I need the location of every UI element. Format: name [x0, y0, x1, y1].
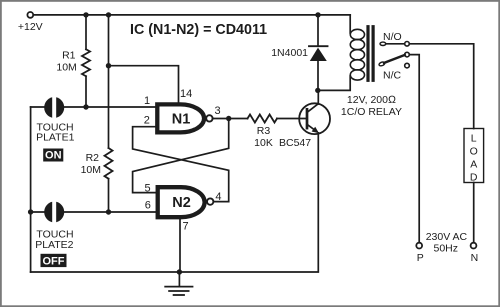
resistor R2 — [81, 148, 113, 179]
svg-text:N2: N2 — [172, 195, 191, 211]
ground — [165, 272, 192, 295]
svg-text:R2: R2 — [86, 152, 100, 164]
wire: N1 output to R3 — [213, 118, 248, 120]
svg-text:IC (N1-N2) = CD4011: IC (N1-N2) = CD4011 — [130, 22, 267, 38]
wire: R2 bottom to touch line 2 — [108, 179, 110, 212]
svg-text:10M: 10M — [81, 164, 101, 176]
nand gate N2 — [158, 187, 214, 217]
wire: supply tap to pin 14 of N1 — [109, 66, 179, 105]
node: ground rail junction — [177, 269, 182, 274]
node: R1 top junction — [83, 12, 88, 17]
relay N/O contact — [380, 31, 409, 46]
wire: junction to relay coil bottom — [318, 76, 350, 90]
svg-text:12V, 200Ω: 12V, 200Ω — [347, 94, 396, 106]
wire: bottom ground rail — [31, 133, 319, 272]
svg-text:A: A — [470, 158, 477, 170]
svg-text:L: L — [471, 132, 477, 144]
wire: touch plate 1 to N1 pin 1 — [64, 106, 158, 108]
node: R2 bottom junction — [106, 209, 111, 214]
node: R1 bottom junction — [83, 104, 88, 109]
svg-text:R1: R1 — [62, 50, 76, 62]
wire: left vertical rail — [30, 107, 32, 272]
relay value label — [341, 94, 402, 118]
label OFF — [41, 254, 67, 267]
svg-text:10K: 10K — [254, 137, 273, 149]
wire: N/O contact to load — [409, 44, 473, 129]
svg-text:R3: R3 — [257, 125, 271, 137]
wire: rail to R1 — [85, 15, 87, 49]
terminal N — [471, 243, 479, 264]
svg-text:3: 3 — [214, 105, 220, 117]
wire: collector up to diode node — [317, 90, 319, 104]
resistor R1 — [56, 49, 90, 76]
+12V supply terminal — [18, 12, 43, 33]
wire: pole to P terminal — [409, 55, 419, 243]
mains label 230V AC 50Hz — [426, 231, 468, 255]
svg-text:PLATE1: PLATE1 — [36, 131, 74, 143]
touch plate 1 symbol — [44, 97, 64, 117]
svg-text:5: 5 — [144, 183, 150, 195]
resistor R3 — [248, 115, 278, 150]
svg-text:ON: ON — [45, 150, 62, 162]
svg-text:O: O — [470, 145, 478, 157]
relay RL1 coil — [350, 15, 364, 80]
svg-text:7: 7 — [182, 221, 188, 233]
nand gate N1 — [157, 104, 212, 132]
diode D1 1N4001 — [271, 15, 327, 91]
svg-text:P: P — [417, 252, 424, 264]
svg-text:10M: 10M — [56, 61, 76, 73]
svg-text:1N4001: 1N4001 — [271, 47, 308, 59]
relay core bars — [368, 27, 373, 81]
svg-text:1C/O RELAY: 1C/O RELAY — [341, 106, 402, 118]
wire: R3 to base of Q1 — [277, 118, 306, 120]
wire: rail down to R2 — [108, 15, 110, 148]
relay N/C contact — [383, 63, 409, 81]
wire: N1 output feedback to N2 pin 5 — [133, 119, 229, 193]
node: N1 output junction — [226, 116, 231, 121]
wire: touch plate 2 row left — [31, 211, 46, 213]
svg-text:6: 6 — [145, 200, 151, 212]
node: diode branch top junction — [315, 12, 320, 17]
wire: touch plate 2 to N2 pin 6 — [64, 211, 158, 213]
node: R2 branch top junction — [106, 12, 111, 17]
touch plate 2 symbol — [44, 202, 64, 222]
wire: touch plate 1 row left — [31, 106, 46, 108]
node: diode-relay-collector junction — [315, 88, 320, 93]
svg-text:N: N — [471, 252, 479, 264]
node: pin14 tap junction — [106, 63, 111, 68]
wire: R1 bottom to touch line — [85, 76, 87, 107]
label TOUCH PLATE1 — [36, 121, 74, 143]
svg-text:+12V: +12V — [18, 21, 43, 33]
svg-text:4: 4 — [215, 191, 221, 203]
svg-text:14: 14 — [180, 88, 192, 100]
wire: +12V top rail — [33, 14, 350, 16]
terminal P — [416, 243, 423, 264]
svg-text:N/C: N/C — [383, 69, 402, 81]
load box — [464, 129, 484, 184]
svg-text:50Hz: 50Hz — [434, 243, 459, 255]
svg-text:2: 2 — [144, 115, 150, 127]
wire: N2 pin 7 to ground rail — [179, 217, 181, 272]
svg-text:N1: N1 — [172, 112, 191, 128]
svg-text:1: 1 — [144, 95, 150, 107]
svg-text:D: D — [470, 171, 478, 183]
svg-text:PLATE2: PLATE2 — [35, 239, 73, 251]
wire: load to N terminal — [473, 183, 475, 243]
wire: N1 pin 2 feedback from N2 output — [133, 127, 229, 202]
transistor Q1 BC547 — [279, 103, 330, 149]
svg-text:N/O: N/O — [383, 31, 402, 43]
node: touch plate 2 left junction — [28, 209, 33, 214]
label TOUCH PLATE2 — [35, 228, 73, 251]
svg-text:OFF: OFF — [43, 255, 65, 267]
label ON — [43, 149, 63, 162]
relay common pole contact — [378, 52, 409, 66]
svg-text:BC547: BC547 — [279, 137, 311, 149]
svg-text:230V AC: 230V AC — [426, 231, 468, 243]
